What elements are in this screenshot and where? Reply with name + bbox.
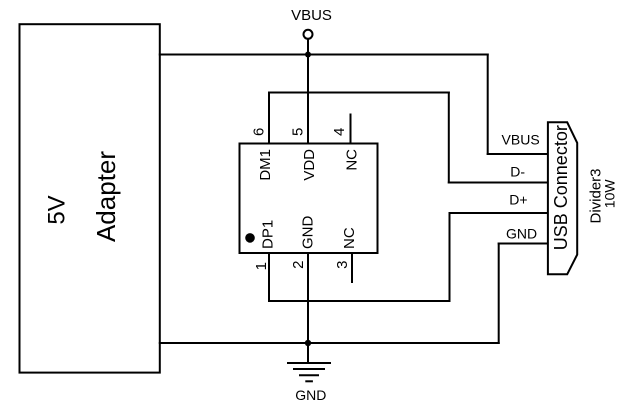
svg-text:3: 3 bbox=[334, 261, 351, 269]
wire DP1 net right vertical bbox=[449, 213, 451, 301]
junction VBUS rail bbox=[305, 52, 311, 58]
wire adapter output to VBUS rail (horizontal top) bbox=[160, 54, 488, 56]
svg-text:GND: GND bbox=[506, 226, 537, 242]
svg-text:DM1: DM1 bbox=[257, 149, 274, 181]
adapter box (5V adapter) bbox=[20, 24, 160, 372]
svg-text:2: 2 bbox=[290, 261, 307, 269]
wire VBUS terminal to IC pin 5 (vertical) bbox=[307, 39, 309, 144]
ground symbol bar 1 bbox=[288, 362, 330, 364]
wire adapter return to GND net horizontal bbox=[160, 342, 499, 344]
svg-text:GND: GND bbox=[295, 387, 326, 403]
wire DM1 net top horizontal bbox=[269, 92, 449, 94]
USB connector body bbox=[548, 122, 577, 274]
svg-text:4: 4 bbox=[331, 128, 348, 136]
svg-text:D-: D- bbox=[510, 164, 525, 180]
pin 4 stub NC bbox=[350, 115, 352, 144]
ground symbol bar 4 bbox=[306, 380, 312, 382]
svg-text:D+: D+ bbox=[509, 192, 527, 208]
svg-text:1: 1 bbox=[253, 262, 270, 270]
wire DM1 net right vertical bbox=[448, 93, 450, 183]
svg-text:NC: NC bbox=[344, 149, 361, 171]
svg-text:NC: NC bbox=[341, 227, 358, 249]
ground symbol bar 2 bbox=[294, 368, 324, 370]
svg-text:DP1: DP1 bbox=[260, 220, 277, 249]
IC box (USB device) bbox=[240, 144, 378, 254]
wire VBUS into USB connector pin bbox=[488, 153, 548, 155]
wire GND into USB connector bbox=[499, 243, 548, 245]
wire VBUS rail right vertical drop bbox=[487, 55, 489, 155]
svg-text:VBUS: VBUS bbox=[291, 7, 332, 24]
svg-text:USB Connector: USB Connector bbox=[551, 125, 571, 250]
ground symbol bar 3 bbox=[300, 374, 318, 376]
junction GND net bbox=[305, 340, 311, 346]
wire D- into USB connector bbox=[449, 182, 548, 184]
svg-text:10W: 10W bbox=[602, 179, 618, 209]
svg-text:Adapter: Adapter bbox=[91, 151, 121, 242]
svg-text:5: 5 bbox=[290, 128, 307, 136]
pin 6 stub DM1 bbox=[268, 93, 270, 144]
svg-text:6: 6 bbox=[251, 128, 268, 136]
svg-text:5V: 5V bbox=[44, 195, 71, 224]
pin 2 stub GND vertical to ground bbox=[307, 253, 309, 363]
pin 1 marker dot bbox=[245, 233, 255, 243]
pin 1 stub DP1 bbox=[268, 253, 270, 301]
svg-text:VBUS: VBUS bbox=[502, 132, 540, 148]
pin 3 stub NC bbox=[351, 253, 353, 282]
svg-text:VDD: VDD bbox=[301, 149, 318, 181]
terminal VBUS open circle bbox=[304, 30, 313, 39]
svg-text:GND: GND bbox=[300, 216, 317, 250]
wire DP1 net bottom horizontal bbox=[269, 300, 450, 302]
wire D+ into USB connector bbox=[450, 212, 548, 214]
wire GND net right vertical bbox=[498, 244, 500, 344]
